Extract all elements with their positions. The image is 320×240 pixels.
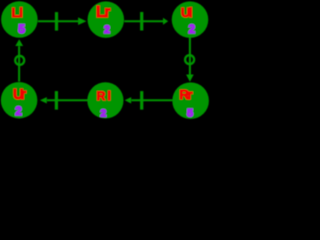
arrowhead into Rr: [186, 75, 194, 82]
edge Ul to Rr (down): [185, 38, 194, 82]
wire: [189, 38, 191, 75]
tick marker: [55, 91, 58, 110]
svg-text:5: 5: [187, 107, 193, 119]
arrowhead into Ll: [15, 39, 23, 46]
ring marker: [185, 55, 194, 64]
tick marker: [140, 91, 143, 110]
node Rr (state Rr, value 5): [172, 82, 209, 119]
svg-text:Ur: Ur: [13, 87, 27, 103]
edge Rl to Ur (leftward): [40, 91, 88, 110]
node Lr (state Lr, value 2): [88, 1, 125, 38]
edge Rr to Rl (leftward): [125, 91, 173, 110]
svg-text:Rl: Rl: [97, 89, 111, 103]
wire: [124, 20, 163, 22]
arrowhead into Ul: [163, 18, 168, 25]
edge Ur to Ll (upward): [15, 39, 24, 81]
svg-text:Lr: Lr: [96, 4, 110, 21]
arrowhead into Ur: [40, 97, 47, 103]
svg-text:2: 2: [104, 24, 110, 36]
svg-text:2: 2: [189, 23, 196, 36]
svg-text:5: 5: [18, 22, 25, 36]
edge Ll to Lr: [38, 12, 87, 31]
node Ul (state Ul, value 2): [172, 1, 209, 38]
tick marker: [140, 12, 143, 31]
wire: [47, 99, 88, 101]
svg-text:2: 2: [100, 108, 106, 120]
svg-text:Ul: Ul: [181, 5, 193, 20]
wire: [18, 46, 20, 81]
node Ll (state Ll, value 5): [1, 1, 38, 38]
svg-text:Ll: Ll: [12, 6, 23, 20]
node Rl (state Rl, value 2): [87, 82, 123, 119]
svg-text:Rr: Rr: [179, 87, 192, 102]
svg-text:2: 2: [15, 105, 21, 118]
arrowhead into Lr: [78, 17, 86, 25]
arrowhead into Rl: [125, 97, 132, 103]
wire: [38, 20, 79, 22]
tick marker: [55, 12, 58, 31]
edge Lr to Ul: [124, 12, 168, 31]
ring marker: [15, 56, 24, 65]
node Ur (state Ur, value 2): [1, 82, 38, 119]
wire: [131, 99, 172, 101]
